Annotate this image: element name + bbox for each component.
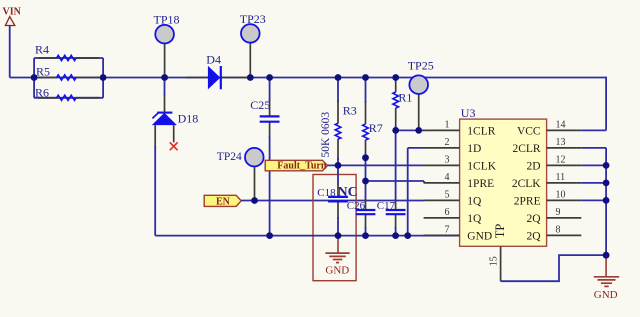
diode D18 right leg pin xyxy=(173,125,175,142)
testpoint TP23 pin xyxy=(249,43,251,78)
svg-text:2Q: 2Q xyxy=(527,213,542,225)
svg-text:5: 5 xyxy=(445,190,450,201)
svg-text:Fault_Turn: Fault_Turn xyxy=(277,161,327,172)
svg-text:R3: R3 xyxy=(343,103,357,117)
svg-text:TP23: TP23 xyxy=(240,12,266,26)
svg-text:1PRE: 1PRE xyxy=(467,178,494,190)
svg-text:2Q: 2Q xyxy=(527,231,542,243)
resistor R7 xyxy=(363,124,369,140)
wire R3 upper lead xyxy=(337,78,339,103)
ic U3 left pin 2 xyxy=(424,147,460,149)
svg-text:R6: R6 xyxy=(35,85,49,99)
wire C25 lower to ground rail xyxy=(269,136,271,236)
svg-text:GND: GND xyxy=(594,289,618,301)
wire R3 lower lead xyxy=(337,158,339,165)
ic U3 body xyxy=(460,119,547,246)
wire pin13 to gnd column xyxy=(581,147,606,149)
wire pin11 stub xyxy=(581,182,606,184)
wire pin10 stub xyxy=(581,199,606,201)
svg-text:1: 1 xyxy=(445,120,450,131)
wire R3 net down to C18 xyxy=(337,165,339,185)
resistor R1 xyxy=(393,92,399,108)
ground symbol right xyxy=(605,255,607,277)
blanket box xyxy=(313,175,356,281)
wire R4 row xyxy=(34,57,103,59)
svg-text:2: 2 xyxy=(445,137,450,148)
wire EN row to U3 pin 5 xyxy=(241,200,424,202)
ic U3 left pin 3 xyxy=(424,164,460,166)
resistor R6 xyxy=(57,95,77,100)
svg-text:15: 15 xyxy=(489,256,500,266)
svg-text:U3: U3 xyxy=(461,106,476,120)
svg-text:TP24: TP24 xyxy=(217,151,242,163)
wire U3 pin2 to ground rail xyxy=(408,147,425,149)
wire R1 net down to C17 xyxy=(395,130,397,201)
svg-text:7: 7 xyxy=(445,225,450,236)
ic U3 right pin 9 xyxy=(547,217,582,219)
svg-text:NC: NC xyxy=(338,185,358,200)
svg-text:GND: GND xyxy=(467,231,492,243)
wire R6 row xyxy=(34,97,103,99)
resistor R6 pins xyxy=(38,97,57,99)
ic U3 left pin 6 xyxy=(424,217,460,219)
svg-text:9: 9 xyxy=(556,207,561,218)
capacitor C18 xyxy=(328,196,348,198)
ic U3 left pin 1 xyxy=(424,129,460,131)
wire R7 net down to C26 xyxy=(365,158,367,201)
ic U3 left pin 7 xyxy=(424,234,460,236)
svg-text:1Q: 1Q xyxy=(467,196,482,208)
svg-text:13: 13 xyxy=(556,137,566,148)
svg-text:VCC: VCC xyxy=(517,126,541,138)
ic U3 right pin 10 xyxy=(547,199,582,201)
svg-text:GND: GND xyxy=(325,265,349,277)
svg-text:6: 6 xyxy=(445,207,450,218)
svg-text:1Q: 1Q xyxy=(467,213,482,225)
svg-text:R7: R7 xyxy=(369,121,383,135)
wire D18 to ground rail xyxy=(154,146,156,236)
svg-text:2CLK: 2CLK xyxy=(512,178,541,190)
wire left bus of R4-R6 xyxy=(33,58,35,98)
svg-text:10: 10 xyxy=(556,190,566,201)
ic U3 right pin 8 xyxy=(547,234,582,236)
svg-text:1CLK: 1CLK xyxy=(467,161,496,173)
testpoint TP23 xyxy=(241,24,260,43)
svg-text:D4: D4 xyxy=(206,52,221,66)
resistor R4 xyxy=(57,55,77,60)
svg-text:11: 11 xyxy=(556,172,566,183)
testpoint TP18 pin xyxy=(164,43,166,77)
wire main horizontal rail xyxy=(10,77,606,79)
svg-text:12: 12 xyxy=(556,155,566,166)
wire C25 upper lead xyxy=(269,78,271,102)
resistor R5 pins xyxy=(38,77,57,79)
svg-text:TP18: TP18 xyxy=(154,12,180,26)
svg-text:C17: C17 xyxy=(377,200,396,212)
svg-text:3: 3 xyxy=(445,155,450,166)
svg-text:EN: EN xyxy=(216,196,231,207)
wire C26 lower to ground rail xyxy=(365,227,367,236)
ground symbol left xyxy=(337,236,339,254)
ic U3 right pin 12 xyxy=(547,164,582,166)
ic U3 right pin 13 xyxy=(547,147,582,149)
wire pin12 stub xyxy=(581,164,606,166)
wire Fault row to U3 pin 3 xyxy=(328,164,425,166)
ic U3 left pin 5 xyxy=(424,199,460,201)
wire C17 lower to ground rail xyxy=(395,227,397,236)
testpoint TP24 pin xyxy=(254,166,256,200)
svg-text:8: 8 xyxy=(556,225,561,236)
capacitor C25 xyxy=(260,115,280,117)
wire VIN vertical xyxy=(9,26,11,78)
diode D4 pins xyxy=(186,77,209,79)
wire pin4 row xyxy=(366,180,425,182)
svg-text:R4: R4 xyxy=(35,43,49,57)
svg-text:1CLR: 1CLR xyxy=(467,126,495,138)
diode D18 left leg pin xyxy=(154,125,156,147)
ic U3 right pin 14 xyxy=(547,129,582,131)
wire ground rail xyxy=(155,235,459,237)
svg-text:2PRE: 2PRE xyxy=(514,196,541,208)
svg-text:D18: D18 xyxy=(178,112,199,126)
svg-text:VIN: VIN xyxy=(3,6,22,17)
ic U3 left pin 4 xyxy=(424,182,460,184)
svg-text:C18: C18 xyxy=(317,187,336,199)
svg-text:2D: 2D xyxy=(527,161,541,173)
svg-text:TP: TP xyxy=(493,224,507,239)
svg-text:TP25: TP25 xyxy=(408,59,434,73)
diode D18 xyxy=(157,112,172,114)
testpoint TP18 xyxy=(155,25,174,44)
svg-text:R1: R1 xyxy=(398,90,412,104)
wire pin14 to VCC rail xyxy=(581,129,606,131)
resistor R3 pins xyxy=(337,100,339,124)
no-ERC cross marker xyxy=(170,142,178,150)
svg-text:50K 0603: 50K 0603 xyxy=(320,112,332,158)
testpoint TP25 xyxy=(409,75,428,94)
capacitor C17 xyxy=(386,209,406,211)
wire R1 bottom to U3 pin 1 xyxy=(395,126,397,130)
ic U3 right pin 11 xyxy=(547,182,582,184)
wire VCC right drop to pin 14 xyxy=(605,77,607,131)
resistor R7 pins xyxy=(365,101,367,124)
svg-text:1D: 1D xyxy=(467,143,481,155)
capacitor C26 pins xyxy=(365,199,367,210)
diode D4 xyxy=(208,66,220,90)
resistor R4 pins xyxy=(38,57,57,59)
svg-text:4: 4 xyxy=(445,172,450,183)
capacitor C17 pins xyxy=(395,199,397,210)
wire C18 lower to ground rail xyxy=(337,217,339,236)
capacitor C18 pins xyxy=(337,184,339,197)
wire R7 upper lead xyxy=(365,78,367,104)
testpoint TP25 pin xyxy=(418,94,420,130)
port Fault_Turn xyxy=(265,160,327,171)
diode D18 top pin xyxy=(164,78,166,97)
capacitor C26 xyxy=(356,209,376,211)
port EN xyxy=(204,195,241,206)
svg-text:R5: R5 xyxy=(36,64,50,78)
svg-text:C26: C26 xyxy=(347,200,366,212)
power port VIN arrow xyxy=(5,17,14,26)
ic U3 bottom pin 15 xyxy=(500,246,502,281)
capacitor C25 pins xyxy=(269,99,271,116)
svg-text:C25: C25 xyxy=(250,98,270,112)
svg-text:14: 14 xyxy=(556,120,566,131)
testpoint TP24 xyxy=(245,148,264,167)
wire right bus of R4-R6 xyxy=(102,58,104,98)
svg-text:2CLR: 2CLR xyxy=(512,143,540,155)
resistor R1 pins xyxy=(395,79,397,92)
wire pin15 route xyxy=(501,255,606,281)
resistor R3 xyxy=(335,123,341,139)
resistor R5 xyxy=(57,75,77,80)
